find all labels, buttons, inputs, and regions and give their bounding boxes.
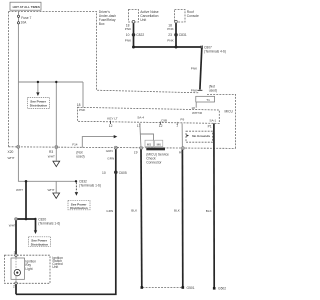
svg-text:3: 3 bbox=[14, 251, 16, 255]
svg-text:used): used) bbox=[209, 88, 217, 92]
svg-text:L9: L9 bbox=[134, 150, 138, 154]
svg-text:SA-1: SA-1 bbox=[209, 118, 216, 122]
svg-text:(Terminals 1-6): (Terminals 1-6) bbox=[79, 183, 101, 187]
svg-text:M5: M5 bbox=[147, 142, 152, 146]
svg-text:Connector: Connector bbox=[146, 161, 162, 165]
svg-text:WHT: WHT bbox=[9, 224, 16, 228]
svg-text:Distribution: Distribution bbox=[31, 243, 48, 247]
svg-text:Console: Console bbox=[187, 14, 199, 18]
svg-text:G502: G502 bbox=[218, 287, 226, 291]
svg-text:PNK: PNK bbox=[125, 38, 132, 42]
svg-text:Light: Light bbox=[25, 267, 32, 271]
svg-text:23: 23 bbox=[168, 33, 172, 37]
svg-text:F14: F14 bbox=[72, 143, 78, 147]
svg-text:Unit: Unit bbox=[52, 265, 58, 269]
svg-text:KEY LT: KEY LT bbox=[107, 117, 117, 121]
svg-text:WHT: WHT bbox=[48, 188, 55, 192]
svg-text:WHT: WHT bbox=[48, 155, 55, 159]
svg-text:GRN: GRN bbox=[107, 157, 114, 161]
svg-text:WHT/R: WHT/R bbox=[192, 111, 203, 115]
svg-text:GRN: GRN bbox=[106, 149, 113, 153]
svg-text:PNK: PNK bbox=[167, 27, 174, 31]
svg-text:No Grounds: No Grounds bbox=[192, 134, 210, 138]
svg-text:used): used) bbox=[76, 154, 84, 158]
svg-text:Box: Box bbox=[99, 22, 105, 26]
svg-text:GRN: GRN bbox=[106, 209, 113, 213]
svg-text:BLK: BLK bbox=[174, 208, 181, 212]
svg-text:P1: P1 bbox=[208, 125, 212, 129]
svg-text:PNK: PNK bbox=[191, 66, 198, 70]
svg-text:1: 1 bbox=[176, 124, 178, 128]
svg-text:MICU: MICU bbox=[225, 109, 234, 113]
svg-text:M6: M6 bbox=[157, 142, 162, 146]
svg-text:G501: G501 bbox=[187, 286, 195, 290]
svg-text:Fuse 7: Fuse 7 bbox=[21, 16, 31, 20]
svg-text:PNK: PNK bbox=[79, 108, 86, 112]
svg-text:SA-4: SA-4 bbox=[137, 116, 144, 120]
svg-text:BLK: BLK bbox=[131, 208, 138, 212]
svg-text:PNK: PNK bbox=[191, 89, 198, 93]
svg-text:R3: R3 bbox=[49, 150, 53, 154]
svg-text:T1: T1 bbox=[206, 98, 210, 102]
svg-text:HOT AT ALL TIMES: HOT AT ALL TIMES bbox=[13, 5, 40, 9]
svg-text:WHT: WHT bbox=[16, 188, 23, 192]
svg-text:C822: C822 bbox=[136, 33, 144, 37]
svg-text:C831: C831 bbox=[179, 33, 187, 37]
svg-text:PNK: PNK bbox=[167, 38, 174, 42]
svg-text:H9: H9 bbox=[179, 151, 183, 155]
svg-text:C807: C807 bbox=[204, 45, 212, 49]
svg-text:BLK: BLK bbox=[206, 209, 213, 213]
svg-text:(Terminals 1-6): (Terminals 1-6) bbox=[38, 221, 60, 225]
svg-text:17: 17 bbox=[137, 124, 141, 128]
svg-text:18: 18 bbox=[191, 106, 195, 110]
svg-text:Unit: Unit bbox=[140, 18, 146, 22]
svg-text:X20: X20 bbox=[8, 150, 14, 154]
svg-text:(Terminals 4-6): (Terminals 4-6) bbox=[204, 50, 226, 54]
svg-text:PNK: PNK bbox=[125, 27, 132, 31]
svg-text:12: 12 bbox=[159, 124, 163, 128]
svg-text:C9B: C9B bbox=[161, 118, 167, 122]
svg-text:2: 2 bbox=[13, 284, 15, 288]
svg-text:WHT: WHT bbox=[8, 156, 15, 160]
svg-text:P9: P9 bbox=[180, 118, 184, 122]
svg-text:10: 10 bbox=[126, 33, 130, 37]
svg-text:10: 10 bbox=[102, 171, 106, 175]
svg-text:12: 12 bbox=[109, 124, 113, 128]
svg-text:C605: C605 bbox=[119, 171, 127, 175]
svg-text:18: 18 bbox=[77, 103, 81, 107]
svg-text:Distribution: Distribution bbox=[30, 104, 47, 108]
svg-text:10A: 10A bbox=[21, 21, 28, 25]
svg-text:Distribution: Distribution bbox=[70, 206, 87, 210]
